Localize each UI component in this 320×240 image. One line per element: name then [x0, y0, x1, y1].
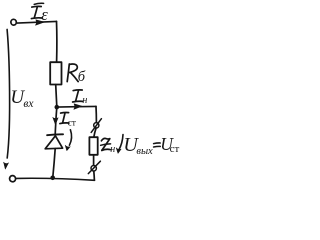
wire: vertical from top corner down to RБ — [56, 21, 58, 62]
connector X2 (slashed circle, bottom of load branch) — [88, 161, 100, 173]
voltage arrow Uвых (curved, beside load) — [116, 135, 123, 154]
input terminal (top-left, +) — [11, 19, 17, 25]
load Zн (box) — [89, 137, 97, 155]
wire: RБ to node A — [56, 85, 57, 107]
wire: node A to load branch (horizontal) — [57, 105, 96, 108]
wire: bottom rail from output terminal to load branch — [16, 178, 95, 180]
arrowhead: current Ie direction on top wire — [36, 20, 45, 25]
voltage arrow Uвх (long left vertical with downward arrowhead) — [4, 29, 10, 169]
svg-text:б: б — [78, 69, 86, 85]
node A (junction dot) — [55, 105, 60, 110]
voltage arrow Uст (curved, beside zener) — [65, 130, 71, 151]
label Uвых = Uст — [123, 134, 179, 157]
wire: zener branch from node A down (Iст segment) — [55, 107, 57, 134]
svg-text:ст: ст — [170, 143, 180, 155]
node B (junction dot on bottom rail) — [50, 176, 55, 181]
svg-text:вх: вх — [23, 98, 34, 110]
output terminal (bottom-left, -) — [9, 175, 16, 182]
arrowhead: current Iст direction — [53, 118, 58, 125]
svg-text:н: н — [110, 144, 115, 155]
connector X1 (slashed circle, top of load branch) — [91, 119, 101, 133]
resistor RБ — [50, 62, 61, 84]
zener diode VD (stabilitron, cathode bar up) — [45, 134, 63, 149]
label Ie (I with overbar, subscript e) — [31, 3, 48, 24]
wire: top horizontal from input terminal to RБ branch — [17, 21, 56, 23]
svg-text:ст: ст — [68, 118, 77, 128]
wire: zener anode to node B — [53, 149, 55, 178]
wire: load Zн to connector X2 — [93, 155, 95, 165]
wire: right branch corner down to connector X1 — [95, 106, 97, 122]
label RБ — [67, 64, 86, 85]
svg-text:ε: ε — [41, 5, 48, 24]
arrowhead: current In direction — [74, 104, 82, 110]
svg-text:н: н — [82, 95, 87, 106]
label In — [73, 90, 88, 106]
label Iст — [60, 112, 77, 128]
wire: connector X2 down to bottom rail — [93, 171, 96, 180]
wire: connector X1 to load Zн — [94, 128, 96, 137]
label Zн (Z with stroke, subscript н) — [101, 138, 116, 155]
svg-text:вых: вых — [136, 146, 153, 157]
label Uвх — [10, 87, 34, 110]
